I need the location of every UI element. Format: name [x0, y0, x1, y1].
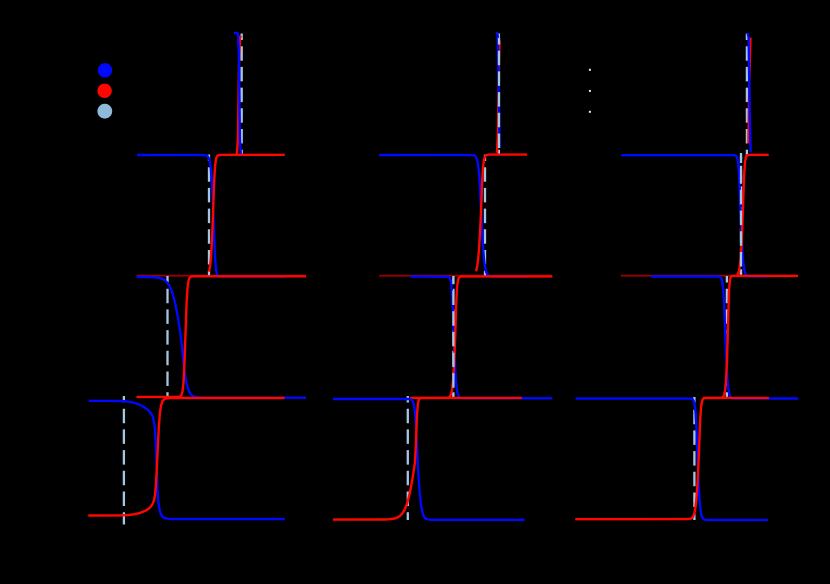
dashed marker overlay c2r1 [498, 38, 500, 153]
dashed transition marker c3r2 [740, 153, 742, 276]
dashed transition marker c1r4 [123, 396, 125, 525]
blue curve c3r3 [651, 277, 798, 399]
blue curve c2r3 [410, 277, 552, 399]
dashed transition marker c1r1 [241, 34, 243, 156]
blue curve c3r1 [748, 33, 751, 152]
dashed transition marker c2r1 [498, 34, 500, 156]
red curve c3r4 [575, 398, 769, 519]
red curve c1r1 [236, 36, 241, 155]
blue curve c3r4 [576, 399, 768, 520]
dashed marker overlay c3r2 [740, 157, 742, 275]
red curve c3r1 [748, 38, 750, 144]
blue curve c3r2 [621, 155, 769, 276]
dashed marker overlay c2r3 [452, 278, 454, 396]
red curve c1r4 [88, 398, 284, 516]
red curve c2r3 [410, 276, 552, 398]
blue curve c1r4 [89, 401, 285, 519]
red curve c1r3 [137, 276, 307, 397]
legend marker blue [98, 63, 112, 77]
red curve c3r3 [703, 276, 798, 398]
red curve c3r2 [737, 155, 769, 275]
dashed transition marker c2r3 [452, 276, 454, 398]
red curve c2r1 [497, 40, 500, 152]
legend marker red [97, 84, 111, 98]
small white legend tick 2 [589, 90, 591, 92]
blue curve c1r1 [234, 33, 241, 154]
dim baseline c1 [137, 275, 307, 277]
dim baseline c3 [621, 275, 798, 277]
blue curve c2r2 [379, 155, 527, 277]
dashed transition marker c3r1 [746, 34, 748, 156]
small white legend tick 1 [589, 69, 591, 71]
dashed transition marker c3r3 [726, 276, 728, 398]
blue curve c2r4 [333, 399, 525, 520]
blue curve c1r3 [137, 277, 307, 398]
small white legend tick 3 [589, 111, 591, 113]
red curve c2r4 [333, 398, 522, 520]
dashed transition marker c3r4 [693, 397, 695, 520]
dashed transition marker c1r2 [208, 155, 210, 277]
dashed transition marker c2r2 [484, 155, 486, 277]
dim baseline c2 [379, 275, 552, 277]
red curve c2r2 [476, 155, 527, 272]
red curve c1r2 [209, 155, 285, 272]
blue curve c1r2 [137, 155, 285, 277]
blue curve c2r1 [496, 33, 500, 148]
dashed transition marker c2r4 [407, 396, 409, 520]
legend marker light-blue [97, 104, 112, 119]
dashed transition marker c1r3 [166, 276, 168, 398]
